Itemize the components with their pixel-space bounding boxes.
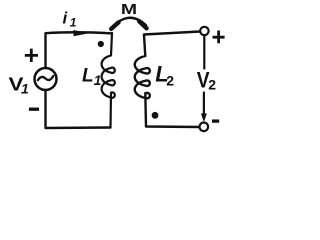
inductor L2 — [135, 35, 200, 127]
wire top-left horizontal — [46, 32, 113, 68]
wire left vertical bottom — [46, 90, 111, 128]
svg-text:M: M — [121, 2, 137, 18]
coupling arc M — [113, 18, 147, 27]
wire right mesh top — [144, 32, 200, 35]
plus sign right — [213, 31, 225, 44]
polarity dot L1 — [98, 41, 104, 47]
svg-text:2: 2 — [166, 73, 174, 89]
svg-text:L: L — [82, 66, 94, 87]
V2 arrowhead — [201, 114, 207, 123]
coupling arrowhead right stroke — [139, 21, 146, 28]
coupling arrowhead left stroke — [111, 22, 118, 29]
V2 reference line upper — [203, 37, 205, 69]
plus sign left — [25, 49, 38, 62]
svg-text:1: 1 — [21, 80, 29, 96]
V2 reference line lower — [203, 93, 205, 119]
minus sign right — [212, 119, 219, 122]
minus sign left — [29, 108, 39, 111]
svg-text:1: 1 — [70, 16, 77, 30]
voltage source V1 — [35, 68, 57, 90]
svg-text:i: i — [63, 9, 69, 28]
svg-text:1: 1 — [94, 73, 102, 88]
sine wave — [38, 76, 54, 80]
current arrow i1 — [74, 30, 90, 36]
svg-text:2: 2 — [208, 76, 216, 92]
terminal circle top — [200, 27, 208, 35]
polarity dot L2 — [152, 112, 159, 119]
inductor L1 — [102, 33, 115, 128]
terminal circle bottom — [200, 123, 209, 132]
